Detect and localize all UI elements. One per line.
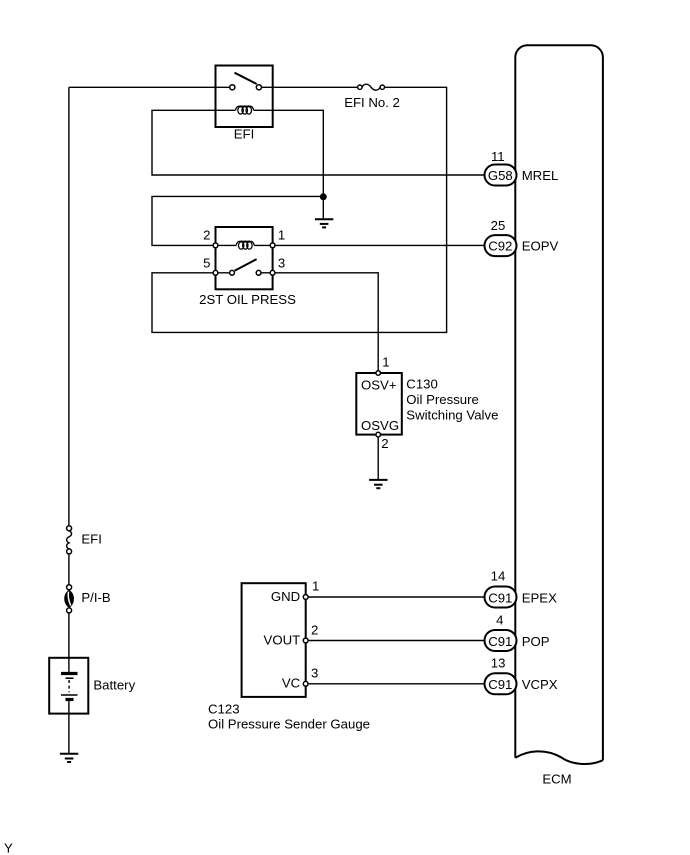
svg-text:EFI No. 2: EFI No. 2 bbox=[344, 95, 400, 110]
svg-text:C91: C91 bbox=[488, 634, 512, 649]
svg-text:2: 2 bbox=[203, 228, 210, 243]
svg-text:1: 1 bbox=[278, 228, 285, 243]
svg-text:5: 5 bbox=[203, 256, 210, 271]
svg-text:Battery: Battery bbox=[93, 678, 135, 693]
svg-text:11: 11 bbox=[491, 149, 505, 164]
svg-text:C91: C91 bbox=[488, 590, 512, 605]
svg-text:VCPX: VCPX bbox=[522, 677, 558, 692]
svg-text:3: 3 bbox=[278, 256, 285, 271]
svg-text:C130: C130 bbox=[406, 376, 438, 391]
svg-text:POP: POP bbox=[522, 634, 550, 649]
svg-text:13: 13 bbox=[491, 656, 506, 671]
svg-text:OSV+: OSV+ bbox=[361, 378, 397, 393]
svg-text:25: 25 bbox=[491, 218, 506, 233]
svg-text:EOPV: EOPV bbox=[522, 239, 559, 254]
svg-text:C92: C92 bbox=[488, 239, 512, 254]
svg-text:C123: C123 bbox=[208, 702, 240, 717]
svg-text:1: 1 bbox=[312, 578, 319, 593]
svg-text:Oil Pressure: Oil Pressure bbox=[406, 392, 479, 407]
svg-text:P/I-B: P/I-B bbox=[81, 590, 111, 605]
svg-text:OSVG: OSVG bbox=[361, 418, 399, 433]
svg-text:1: 1 bbox=[382, 354, 389, 369]
svg-text:3: 3 bbox=[311, 666, 318, 681]
svg-text:ECM: ECM bbox=[542, 772, 571, 787]
svg-text:G58: G58 bbox=[488, 168, 513, 183]
svg-text:GND: GND bbox=[271, 589, 300, 604]
svg-text:VC: VC bbox=[282, 676, 301, 691]
svg-text:EPEX: EPEX bbox=[522, 590, 557, 605]
svg-text:MREL: MREL bbox=[522, 168, 559, 183]
svg-text:VOUT: VOUT bbox=[264, 633, 301, 648]
svg-text:C91: C91 bbox=[488, 677, 512, 692]
svg-text:4: 4 bbox=[496, 613, 503, 628]
svg-text:Oil Pressure Sender Gauge: Oil Pressure Sender Gauge bbox=[208, 717, 370, 732]
svg-text:2: 2 bbox=[311, 623, 318, 638]
svg-text:Y: Y bbox=[4, 841, 13, 855]
svg-text:EFI: EFI bbox=[234, 127, 255, 142]
svg-text:Switching Valve: Switching Valve bbox=[406, 408, 498, 423]
svg-text:2: 2 bbox=[381, 436, 388, 451]
svg-text:EFI: EFI bbox=[81, 532, 102, 547]
svg-text:2ST OIL PRESS: 2ST OIL PRESS bbox=[199, 292, 296, 307]
svg-text:14: 14 bbox=[491, 569, 506, 584]
